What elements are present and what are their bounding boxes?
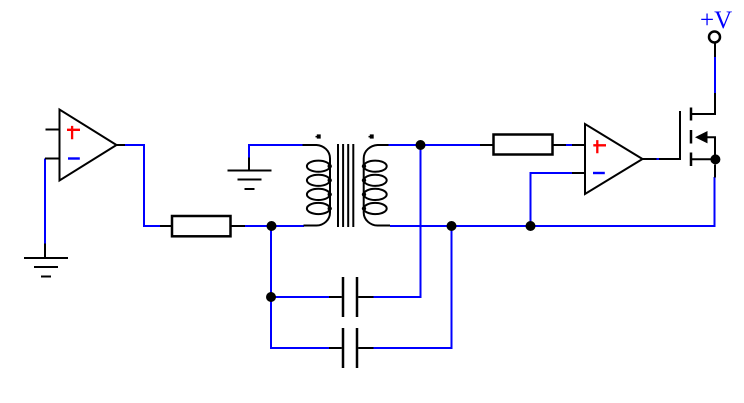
svg-text:+V: +V — [700, 7, 732, 34]
